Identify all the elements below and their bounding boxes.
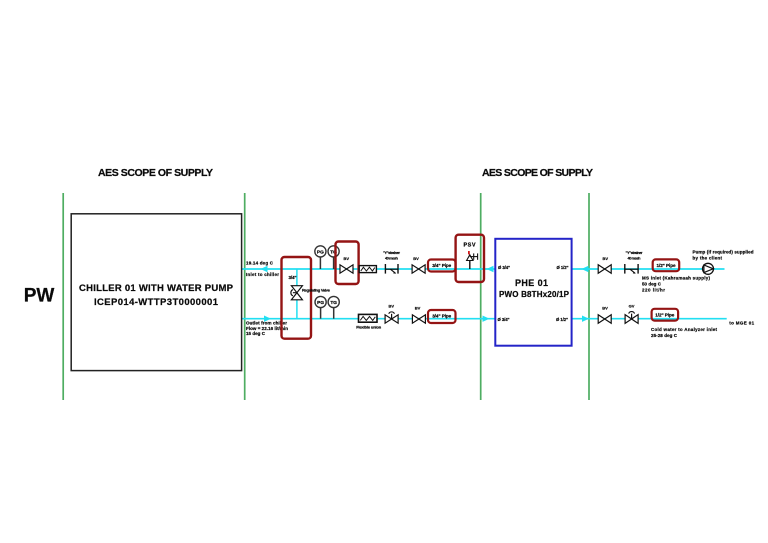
label: Regulating Valve xyxy=(302,287,331,292)
svg-text:Inlet to chiller: Inlet to chiller xyxy=(246,272,279,277)
svg-text:Ø 1/2": Ø 1/2" xyxy=(557,265,569,270)
port label: O 1/2" (PHE top-right) xyxy=(557,265,569,270)
svg-text:40 mesh: 40 mesh xyxy=(628,257,642,261)
label: MS inlet (Kahramaah supply) 50 deg C 220 lit/hr xyxy=(642,276,711,293)
label: BV (top, in cloud) xyxy=(344,256,350,261)
label: 15 deg C xyxy=(246,331,266,336)
svg-text:Ø 3/4": Ø 3/4" xyxy=(498,317,510,322)
label: PSV xyxy=(464,243,476,249)
flexible union (bottom) xyxy=(356,314,382,329)
svg-text:PSV: PSV xyxy=(464,243,476,249)
valve GV (right bottom, globe with dome) xyxy=(625,303,638,323)
port label: O 3/4" (PHE bottom-left) xyxy=(498,317,510,322)
valve BV3 (bottom, with actuator dome) xyxy=(385,304,398,324)
instrument PG (bottom) xyxy=(315,296,326,318)
svg-text:MS inlet (Kahramaah supply): MS inlet (Kahramaah supply) xyxy=(642,276,711,281)
flow arrow left (inlet to chiller) xyxy=(261,266,268,272)
scope boundary line 3 xyxy=(480,193,482,400)
svg-text:19.14 deg C: 19.14 deg C xyxy=(246,260,274,265)
node PW (fluid service label) xyxy=(24,286,55,307)
label: Inlet to chiller xyxy=(246,272,279,277)
valve BV2 (top) xyxy=(412,256,425,273)
instrument TG (top) xyxy=(328,246,339,269)
wire: top pipe PHE to pump xyxy=(572,268,725,270)
flow arrow left (into chiller loop at PHE) xyxy=(487,266,494,272)
svg-text:by the client: by the client xyxy=(693,255,723,260)
svg-text:Cold water to Analyzer inlet: Cold water to Analyzer inlet xyxy=(651,327,718,332)
scope boundary line 4 xyxy=(588,193,590,400)
flow arrow right (outlet from chiller) xyxy=(264,316,271,322)
svg-text:AES SCOPE OF SUPPLY: AES SCOPE OF SUPPLY xyxy=(98,167,213,179)
label: 3/4" (bypass) xyxy=(289,275,297,280)
svg-text:AES SCOPE OF SUPPLY: AES SCOPE OF SUPPLY xyxy=(482,167,593,179)
svg-text:GV: GV xyxy=(629,303,635,308)
valve BV6 (right bottom) xyxy=(598,305,611,323)
svg-text:BV: BV xyxy=(389,304,395,309)
svg-text:BV: BV xyxy=(415,305,421,310)
svg-text:ICEP014-WTTP3T0000001: ICEP014-WTTP3T0000001 xyxy=(94,297,219,308)
svg-text:3/4": 3/4" xyxy=(289,275,297,280)
valve BV1 (top, ball valve bowtie) xyxy=(340,265,353,273)
svg-text:Pump (if required) supplied: Pump (if required) supplied xyxy=(693,249,754,254)
svg-text:25-28 deg C: 25-28 deg C xyxy=(651,333,678,338)
svg-text:PWO B8THx20/1P: PWO B8THx20/1P xyxy=(499,290,570,299)
flexible union (top) xyxy=(359,266,376,273)
revision cloud label: 3/4" Pipe (bottom) xyxy=(428,310,456,323)
svg-text:BV: BV xyxy=(602,305,608,310)
revision cloud label: 1/2" Pipe (bottom right) xyxy=(652,309,679,321)
Y-strainer (right top) xyxy=(625,264,638,274)
svg-text:1/2" Pipe: 1/2" Pipe xyxy=(655,312,674,317)
pump P1 (circle with triangle) xyxy=(703,263,714,274)
svg-text:40 mesh: 40 mesh xyxy=(385,257,399,261)
svg-text:Regulating Valve: Regulating Valve xyxy=(302,287,331,292)
valve BV5 (right top) xyxy=(598,256,611,274)
svg-text:"Y"strainer: "Y"strainer xyxy=(626,251,644,255)
svg-text:PHE 01: PHE 01 xyxy=(515,278,548,288)
instrument TG (bottom) xyxy=(328,296,339,318)
valve BV4 (bottom) xyxy=(412,305,425,323)
label: Flow = 22.16 lit/min xyxy=(246,326,288,331)
heat exchanger PHE 01 box xyxy=(495,239,571,346)
svg-text:"Y"strainer: "Y"strainer xyxy=(383,251,401,255)
svg-text:BV: BV xyxy=(344,256,350,261)
label: Outlet from chiller xyxy=(246,321,287,326)
safety valve PSV symbol xyxy=(467,251,478,269)
svg-text:Ø 3/4": Ø 3/4" xyxy=(498,265,510,270)
revision cloud: BV valve (top) xyxy=(336,242,359,285)
label: to MGE 01 xyxy=(729,320,754,325)
svg-text:BV: BV xyxy=(603,256,609,261)
wire: bottom pipe chiller to PHE xyxy=(242,318,495,320)
svg-text:1/2" Pipe: 1/2" Pipe xyxy=(657,263,676,268)
flow arrow right (cold water out of PHE) xyxy=(582,316,589,322)
svg-text:to MGE 01: to MGE 01 xyxy=(729,320,754,325)
port label: O 1/2" (PHE bottom-right) xyxy=(556,317,568,322)
label: 19.14 deg C xyxy=(246,260,274,265)
label: Cold water to Analyzer inlet / 25-28 deg C xyxy=(651,327,718,338)
revision cloud label: 1/2" Pipe (top right) xyxy=(653,259,680,271)
chiller CH-01 box xyxy=(71,214,241,371)
scope boundary line 1 xyxy=(62,193,64,400)
svg-text:CHILLER 01 WITH WATER PUMP: CHILLER 01 WITH WATER PUMP xyxy=(79,283,234,294)
svg-text:15 deg C: 15 deg C xyxy=(246,331,266,336)
svg-text:Flexible union: Flexible union xyxy=(356,324,382,329)
flow arrow left (MS inlet to PHE) xyxy=(582,266,589,272)
svg-text:3/4" Pipe: 3/4" Pipe xyxy=(432,263,451,268)
label: Pump (if required) supplied by the client xyxy=(693,249,754,260)
wire: bottom pipe PHE to MGE xyxy=(572,318,727,320)
svg-text:TG: TG xyxy=(330,300,337,306)
svg-text:Ø 1/2": Ø 1/2" xyxy=(556,317,568,322)
port label: O 3/4" (PHE top-left) xyxy=(498,265,510,270)
svg-text:50 deg C: 50 deg C xyxy=(642,282,662,287)
svg-text:PG: PG xyxy=(317,300,324,306)
header: AES SCOPE OF SUPPLY (right) xyxy=(482,167,593,179)
revision cloud label: 3/4" Pipe (top) xyxy=(428,260,456,272)
regulating valve RV (vertical bowtie with handle) xyxy=(291,286,303,300)
revision cloud: bypass with regulating valve xyxy=(282,257,312,339)
svg-text:PW: PW xyxy=(24,286,55,307)
svg-text:220 lit/hr: 220 lit/hr xyxy=(642,287,665,292)
Y-strainer (top middle) xyxy=(385,264,398,274)
revision cloud: PSV xyxy=(456,235,484,282)
wire: top pipe chiller to PHE xyxy=(242,268,495,270)
flow arrow right (into PHE bottom) xyxy=(483,316,490,322)
wire: bypass vertical line xyxy=(296,269,298,319)
svg-text:PG: PG xyxy=(317,249,324,255)
scope boundary line 2 xyxy=(244,193,246,400)
svg-text:BV: BV xyxy=(413,256,419,261)
header: AES SCOPE OF SUPPLY (left) xyxy=(98,167,213,179)
instrument PG (top) xyxy=(315,246,326,269)
svg-text:3/4" Pipe: 3/4" Pipe xyxy=(432,314,451,319)
label: 'Y' strainer 40 mesh (right) xyxy=(626,251,644,260)
label: 'Y' strainer 40 mesh (top middle) xyxy=(383,251,401,260)
